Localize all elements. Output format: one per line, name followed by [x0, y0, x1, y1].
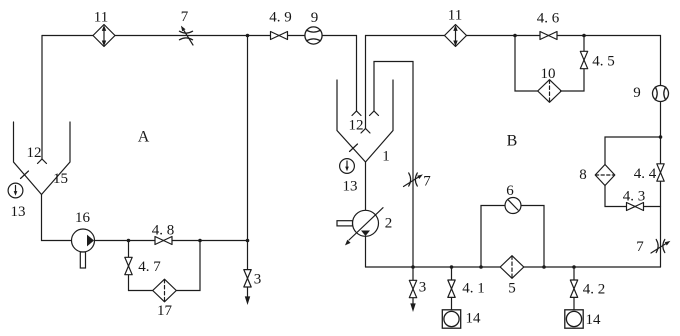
filter 10 [538, 80, 562, 103]
throttle valve 7 (middle riser) [404, 173, 423, 187]
svg-text:7: 7 [423, 174, 431, 190]
node: junction right of valve 4.6 bypass [582, 34, 586, 38]
wire: filter 10 bypass left drop [515, 36, 539, 92]
node: junction right of gauge loop [542, 265, 546, 269]
svg-text:4. 4: 4. 4 [634, 166, 657, 182]
sampling valve 4.2 [573, 267, 575, 310]
svg-text:4. 6: 4. 6 [537, 11, 560, 27]
svg-text:15: 15 [53, 171, 68, 187]
wire: bypass branch down from junction through valve 4.7 [128, 241, 130, 291]
filter 5 [500, 256, 524, 279]
wire: pipe from A header down into tank A nozzle [41, 36, 43, 160]
node: junction at valve 4.7 branch [127, 239, 131, 243]
svg-text:8: 8 [579, 167, 587, 183]
svg-text:16: 16 [75, 210, 91, 226]
svg-text:6: 6 [506, 183, 514, 199]
wire: section B top header line [366, 35, 661, 37]
shut-off valve 4.3 [627, 203, 644, 211]
level tick on tank 1 wall [350, 144, 358, 152]
shut-off valve 4.6 [540, 32, 557, 40]
svg-text:A: A [138, 129, 150, 146]
svg-text:14: 14 [586, 312, 602, 328]
svg-text:4. 7: 4. 7 [138, 259, 161, 275]
heat exchanger 11 (section A) [93, 25, 115, 47]
heat exchanger 11 (section B) [445, 25, 467, 47]
svg-text:3: 3 [254, 272, 262, 288]
drain arrow (section B) [411, 304, 415, 310]
svg-text:B: B [507, 133, 518, 150]
wire: pipe 2 from B header down into tank B [365, 36, 367, 129]
svg-text:17: 17 [157, 303, 173, 319]
svg-text:11: 11 [448, 8, 462, 24]
wire: gauge loop right side [521, 206, 544, 268]
sample container 14 (left) [442, 310, 460, 328]
drain valve 3 (section B) [412, 267, 414, 304]
nozzle 12 (tank A spray end) [38, 159, 47, 164]
wire: pump 2 outlet down to bottom line [365, 236, 367, 267]
svg-text:14: 14 [466, 311, 482, 327]
wire: filter 8 branch bottom run through valve 4.3 [605, 186, 661, 207]
tank 1 outline (section B hopper) [337, 80, 393, 162]
shut-off valve 4.8 [155, 237, 172, 245]
wire: section A top header line [42, 35, 357, 37]
svg-text:12: 12 [349, 118, 364, 134]
sampling valve 4.1 [451, 267, 453, 310]
filter 8 [595, 165, 615, 186]
svg-text:4. 8: 4. 8 [152, 223, 175, 239]
nozzle 12 (tank B, from section A) [352, 111, 361, 116]
filter 17 [153, 279, 177, 302]
wire: pump 16 outlet line to down-line [95, 240, 248, 242]
wire: bypass bottom run to filter 17 [129, 290, 153, 292]
wire: B header right corner down main return [660, 36, 662, 268]
svg-text:7: 7 [181, 9, 189, 25]
pump 16 [72, 229, 95, 252]
wire: vertical line from header junction down to pump line [247, 36, 249, 241]
shut-off valve 4.5 [580, 51, 587, 68]
svg-text:5: 5 [508, 281, 516, 297]
node: junction at B drain valve 3 [411, 265, 415, 269]
svg-text:4. 3: 4. 3 [623, 189, 646, 205]
svg-text:3: 3 [419, 280, 427, 296]
node: junction at valve 4.1 [450, 265, 454, 269]
svg-text:4. 2: 4. 2 [583, 282, 606, 298]
svg-text:9: 9 [633, 85, 641, 101]
node: junction at filter 17 return [198, 239, 202, 243]
svg-text:10: 10 [541, 66, 556, 82]
wire: A header corner down into tank B nozzle (pipe 1) [356, 36, 358, 112]
wire: inner suction line corner to throttle riser [374, 62, 413, 268]
svg-text:7: 7 [636, 239, 644, 255]
svg-text:11: 11 [94, 10, 108, 26]
node: junction left of valve 4.6 bypass [513, 34, 517, 38]
shut-off valve 4.4 [657, 164, 664, 181]
svg-text:4. 9: 4. 9 [269, 10, 292, 26]
wire: section B bottom line [366, 266, 661, 268]
nozzle (tank B, return from B header) [361, 129, 370, 134]
level tick on tank 15 wall [21, 171, 29, 179]
node: junction at A drain valve [246, 239, 250, 243]
pump 2 drive shaft [337, 221, 353, 226]
pressure gauge 6 [505, 198, 521, 214]
drain valve 3 (section A) [247, 241, 249, 298]
svg-text:13: 13 [343, 179, 358, 195]
node: junction at valve 4.2 [572, 265, 576, 269]
pump 2 (variable displacement) [345, 208, 383, 246]
node: junction left of gauge loop [479, 265, 483, 269]
throttle valve 7 (section B return) [651, 239, 670, 253]
thermometer 13 (tank B) [340, 159, 355, 174]
wire: gauge bypass loop [481, 206, 505, 268]
wire: tank B outlet to pump 2 [365, 162, 367, 211]
throttle valve 7 (section A header) [179, 26, 193, 45]
sample container 14 (right) [565, 310, 583, 328]
wire: filter 17 to riser back to pump line [177, 241, 201, 291]
node: junction at filter 8 branch [659, 135, 663, 139]
thermometer 13 (tank A) [8, 183, 23, 198]
node: junction of header and down-line at x=247.5 [246, 34, 250, 38]
nozzle (tank B, suction pipe 3) [370, 111, 379, 116]
pump 16 drive shaft [80, 252, 85, 268]
svg-text:4. 5: 4. 5 [592, 54, 615, 70]
flow meter 9 (section B riser) [653, 86, 669, 102]
wire: filter 10 bypass right riser [561, 36, 585, 92]
svg-text:9: 9 [311, 10, 319, 26]
shut-off valve 4.7 [125, 257, 132, 274]
svg-text:12: 12 [27, 145, 42, 161]
svg-text:1: 1 [382, 149, 390, 165]
wire: tank A outlet down and to pump 16 [42, 195, 72, 241]
wire: filter 8 branch top run [605, 137, 661, 165]
drain arrow (section A) [246, 297, 250, 303]
flow meter 9 (section A header) [305, 27, 322, 44]
svg-text:4. 1: 4. 1 [462, 281, 485, 297]
shut-off valve 4.9 [271, 32, 288, 40]
svg-text:2: 2 [385, 216, 393, 232]
tank 15 outline (section A hopper) [14, 122, 71, 195]
svg-text:13: 13 [11, 204, 26, 220]
